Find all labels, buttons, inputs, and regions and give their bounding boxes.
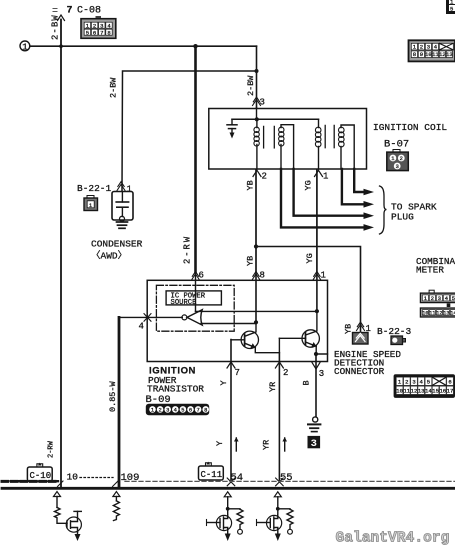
svg-text:7: 7 (67, 6, 73, 17)
ground : B wire chassis ground with number 3 (308, 417, 321, 450)
power transistor unit box (147, 280, 327, 361)
connector C-08 icon (81, 16, 116, 38)
pin 2 : PT exit, wire YR down to ECU pin 55 (262, 353, 289, 486)
wire : coil internal rail (232, 108, 319, 122)
svg-text:2: 2 (158, 408, 161, 414)
svg-text:TRANSISTOR: TRANSISTOR (147, 384, 204, 395)
svg-text:1: 1 (22, 42, 27, 52)
wire : spark plug lead 3 (294, 169, 364, 216)
svg-text:SOURCE: SOURCE (171, 299, 197, 307)
svg-text:3: 3 (100, 22, 103, 29)
junction : main line 2-RW tap (193, 44, 197, 48)
svg-text:2: 2 (431, 296, 434, 302)
svg-text:2-RW: 2-RW (183, 235, 193, 264)
junction : YB to Q1 (254, 320, 258, 324)
svg-text:2: 2 (405, 379, 408, 386)
svg-text:17: 17 (447, 388, 454, 395)
svg-text:10: 10 (67, 472, 79, 483)
IC power source inner box (dash-dot) (156, 285, 234, 331)
svg-text:2-BW: 2-BW (109, 77, 119, 98)
connector : top right corner (cut off) (446, 0, 455, 14)
svg-text:3: 3 (166, 408, 169, 414)
svg-text:1: 1 (151, 408, 154, 414)
ignition coil box (209, 109, 367, 170)
wire 2-BW : vertical from C-08 pin 7 down to ECU bus (51, 9, 65, 488)
svg-text:IGNITION COIL: IGNITION COIL (373, 122, 447, 133)
svg-text:7: 7 (100, 29, 103, 36)
transistor Q2 (279, 311, 327, 356)
svg-text:11: 11 (429, 310, 435, 316)
svg-text:3: 3 (438, 296, 441, 302)
connector C-11 icon (199, 462, 224, 480)
svg-text:12: 12 (411, 388, 418, 395)
svg-text:YG: YG (304, 180, 314, 190)
svg-text:1: 1 (391, 156, 394, 162)
svg-text:8: 8 (413, 51, 416, 58)
svg-text:2: 2 (93, 22, 96, 29)
svg-text:B-07: B-07 (384, 139, 409, 151)
svg-text:CONDENSER: CONDENSER (91, 239, 143, 250)
svg-text:Y: Y (219, 380, 229, 385)
svg-text:6: 6 (189, 408, 192, 414)
connector B-09 icon (146, 404, 209, 416)
pin 4 : PT left exit with 0.85-W wire down to pin 109 (108, 314, 182, 487)
svg-text:8: 8 (107, 29, 110, 36)
svg-text:6: 6 (93, 29, 96, 36)
junction : main line x 2-BW vertical (59, 44, 63, 48)
svg-text:4: 4 (139, 322, 144, 332)
ground : condenser ground (117, 222, 128, 228)
svg-text:55: 55 (280, 472, 293, 484)
connector B-22-1 icon (84, 196, 98, 211)
connector B-07 icon (387, 150, 409, 171)
svg-text:16: 16 (439, 388, 446, 395)
svg-text:2: 2 (400, 156, 403, 162)
pin 3 : PT exit, wire B to ground 3 (302, 354, 325, 417)
pin 6 : PT entry (192, 271, 204, 312)
transistor Q1 (231, 322, 279, 352)
connector C-10 icon (2, 440, 58, 481)
svg-text:〈AWD〉: 〈AWD〉 (91, 251, 127, 262)
svg-text:B-22-1: B-22-1 (77, 183, 112, 194)
ECU internal : pin 10 pull-down and FET (54, 492, 82, 542)
svg-text:B: B (302, 380, 312, 385)
connector : combination meter row 2 (420, 303, 455, 317)
svg-text:54: 54 (231, 472, 244, 484)
wire : main horizontal from node 1 (30, 45, 257, 47)
svg-text:13: 13 (443, 310, 449, 316)
svg-text:3: 3 (311, 438, 317, 450)
ECU bus : dashed boundary and ground bus (2, 481, 455, 488)
svg-text:YB: YB (246, 256, 256, 266)
svg-text:7: 7 (235, 368, 240, 378)
pin 8 : PT entry (252, 271, 265, 323)
wire 2-BW : drop to ignition coil pin 3 (246, 46, 265, 107)
svg-text:0.85-W: 0.85-W (108, 380, 118, 412)
connector : engine speed detection connector icon (353, 333, 369, 345)
svg-text:YG: YG (305, 253, 315, 263)
svg-text:C-11: C-11 (201, 470, 223, 480)
wire : spark plug lead 2 (342, 169, 364, 204)
svg-text:3: 3 (396, 164, 399, 170)
svg-text:Y: Y (215, 441, 225, 446)
svg-text:13: 13 (446, 51, 453, 58)
wire : spark plug lead 1 (354, 169, 364, 192)
svg-text:GalantVR4.org: GalantVR4.org (336, 531, 450, 547)
svg-text:2-BW: 2-BW (51, 14, 61, 40)
svg-text:6: 6 (199, 271, 204, 281)
capacitor : inside coil box with ground arrow (227, 119, 237, 138)
label : IGNITION POWER TRANSISTOR B-09 (146, 366, 205, 407)
IC POWER SOURCE label box (166, 291, 221, 307)
capacitor : condenser (AWD) B-22-1 (112, 192, 133, 222)
wire YG : coil pin1 to power transistor pin 1 (304, 170, 317, 272)
svg-text:YR: YR (262, 440, 272, 450)
svg-text:YB: YB (246, 180, 256, 190)
pin 2 : coil primary 1 exit (253, 170, 267, 181)
svg-text:2: 2 (283, 368, 288, 378)
svg-text:CONNECTOR: CONNECTOR (334, 366, 385, 377)
pin 10 : label and dotted link to 109 (58, 472, 140, 487)
connector : top right 13-pin with cross (409, 40, 455, 61)
svg-text:2-RW: 2-RW (48, 440, 56, 458)
pin 1 : PT entry (313, 271, 326, 312)
core : coil 1 core bars (263, 126, 265, 147)
inductor : coil 1 secondary, spark outputs (279, 125, 294, 169)
svg-text:4: 4 (174, 408, 177, 414)
svg-text:109: 109 (121, 472, 140, 484)
svg-text:METER: METER (416, 265, 444, 276)
wire YB branch : to engine speed detection connector (254, 244, 371, 334)
junction : YG to Q2 (315, 309, 319, 313)
svg-text:7: 7 (196, 408, 199, 414)
connector : combination meter row 1 (420, 290, 455, 302)
svg-text:C-08: C-08 (77, 6, 101, 17)
wire : spark plug lead 4 (281, 169, 364, 227)
svg-text:13: 13 (418, 388, 425, 395)
svg-text:5: 5 (450, 6, 453, 13)
gate U1 : driver stage symbol (182, 310, 316, 325)
svg-text:2: 2 (420, 44, 423, 51)
ECU internal : pin 54 FET and resistor (207, 492, 244, 541)
pin 1 : coil primary 2 exit (315, 170, 329, 181)
svg-text:2: 2 (262, 172, 267, 182)
arrows : to spark plug (364, 189, 375, 231)
core : coil 2 core bars (324, 125, 326, 147)
inductor : coil 1 primary (254, 119, 259, 169)
node 1 : circled wire number top left (20, 41, 30, 52)
svg-text:2-BW: 2-BW (246, 75, 256, 96)
ECU internal : pin 109 pull-down resistor (113, 492, 120, 521)
svg-text:1: 1 (424, 296, 427, 302)
inductor : coil 2 secondary, spark outputs (339, 125, 355, 169)
svg-text:8: 8 (260, 271, 265, 281)
wire YB : coil pin2 to power transistor pin 8 (246, 170, 257, 272)
svg-text:C-10: C-10 (30, 471, 52, 481)
svg-text:3: 3 (260, 98, 265, 108)
svg-text:6: 6 (448, 379, 451, 386)
wire : branch rail to condenser (122, 71, 257, 191)
svg-text:PLUG: PLUG (391, 212, 414, 223)
svg-text:5: 5 (86, 29, 89, 36)
pin 7 : PT exit, wire Y down to ECU pin 54 (215, 340, 240, 486)
svg-text:9: 9 (420, 51, 423, 58)
svg-text:12: 12 (436, 310, 442, 316)
svg-text:1: 1 (323, 172, 328, 182)
svg-text:YR: YR (268, 382, 278, 392)
svg-text:3: 3 (427, 44, 430, 51)
svg-text:15: 15 (432, 388, 439, 395)
inductor : coil 2 primary (315, 119, 321, 169)
label B-22-1 pin 1 (77, 182, 132, 195)
svg-text:3: 3 (412, 379, 415, 386)
svg-text:3: 3 (319, 369, 324, 379)
svg-text:10: 10 (422, 310, 428, 316)
svg-text:5: 5 (427, 379, 430, 386)
svg-text:1: 1 (321, 271, 326, 281)
svg-text:12: 12 (439, 51, 446, 58)
svg-text:1: 1 (127, 185, 132, 195)
connector : bottom right 17-pin with cross (394, 374, 455, 398)
brace and label TO SPARK PLUG (380, 186, 387, 234)
svg-text:8: 8 (204, 408, 207, 414)
svg-text:5: 5 (181, 408, 184, 414)
wire 2-RW : thick from main line down to PT pin 6 (183, 46, 196, 272)
svg-text:14: 14 (450, 310, 455, 316)
label B-22-3 and icon (377, 326, 412, 345)
svg-text:4: 4 (445, 296, 448, 302)
ECU internal : pin 55 FET and resistor (257, 492, 294, 541)
